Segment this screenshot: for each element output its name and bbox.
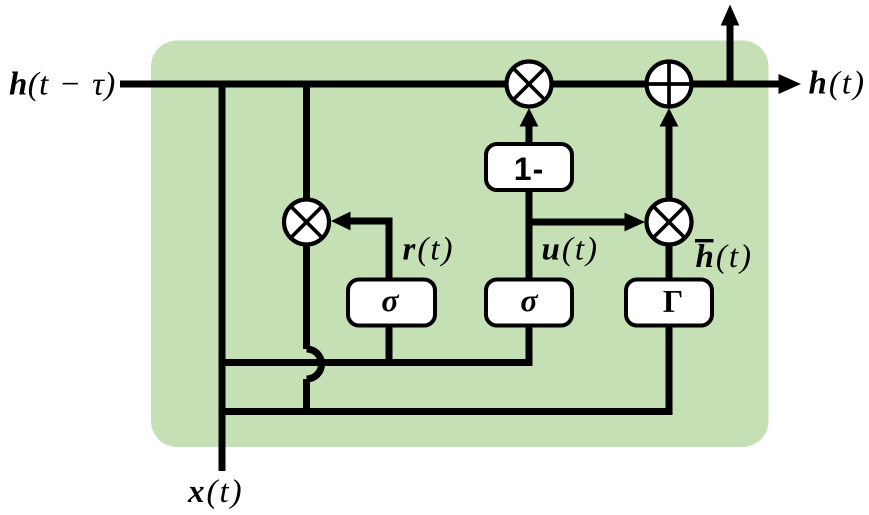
arrowhead up into main multiplier [520,108,539,127]
arrowhead up output [721,5,740,26]
wire: line 1 (x to sigma gates) with corner up to sigma u box [220,325,529,363]
svg-text:h(t): h(t) [696,239,754,275]
sigma r box [348,280,435,326]
wire: main horizontal h line [120,81,780,88]
svg-text:h(t): h(t) [809,66,867,102]
svg-text:1-: 1- [514,151,544,187]
arrowhead up into adder [660,108,679,127]
GRU cell body (green rounded rect) [151,41,769,448]
multiplier node on main line (update gate) [507,62,552,107]
wire: sigma r down line [386,325,393,366]
svg-text:h(t − τ): h(t − τ) [9,67,116,103]
overbar of h-bar(t) [695,239,714,242]
svg-text:σ: σ [381,282,399,318]
candidate multiplier node [647,200,692,245]
svg-text:σ: σ [520,282,538,318]
1- box [486,144,572,190]
wire: candidate multiplier up to adder [666,125,673,199]
svg-text:u(t): u(t) [542,232,600,268]
wire: branch from u line to candidate multiplier [527,219,626,226]
adder node on main line [647,62,692,107]
wire: below hop to line 2 [303,379,310,412]
reset multiplier node [284,200,329,245]
Gamma box [626,280,712,326]
svg-text:Γ: Γ [663,283,683,319]
sigma u box [486,280,572,326]
wire: line 2 (to Gamma) with corner [220,325,669,412]
wire: x(t) vertical input line [219,84,226,471]
svg-text:x(t): x(t) [187,474,244,510]
wire: vertical into reset multiplier (x=306.5) top segment [303,84,310,198]
wire: candidate multiplier down to Gamma box [666,245,673,280]
arrowhead h(t) output right [779,74,802,94]
wire: below reset multiplier down to hop [303,245,310,349]
wire: arrow from 1- box up into main multiplier [526,125,533,145]
wire: output branch up at x=730 [727,25,734,84]
arrowhead into reset multiplier (left) [331,212,351,231]
wire: r gate output, corner from sigma r up then left into reset multiplier [349,221,389,280]
arrowhead into candidate multiplier (right) [625,213,646,232]
wire: u line from 1- box down to sigma u box [526,188,533,281]
hop (bridge) over line 1 [307,349,322,379]
svg-text:r(t): r(t) [403,232,455,268]
